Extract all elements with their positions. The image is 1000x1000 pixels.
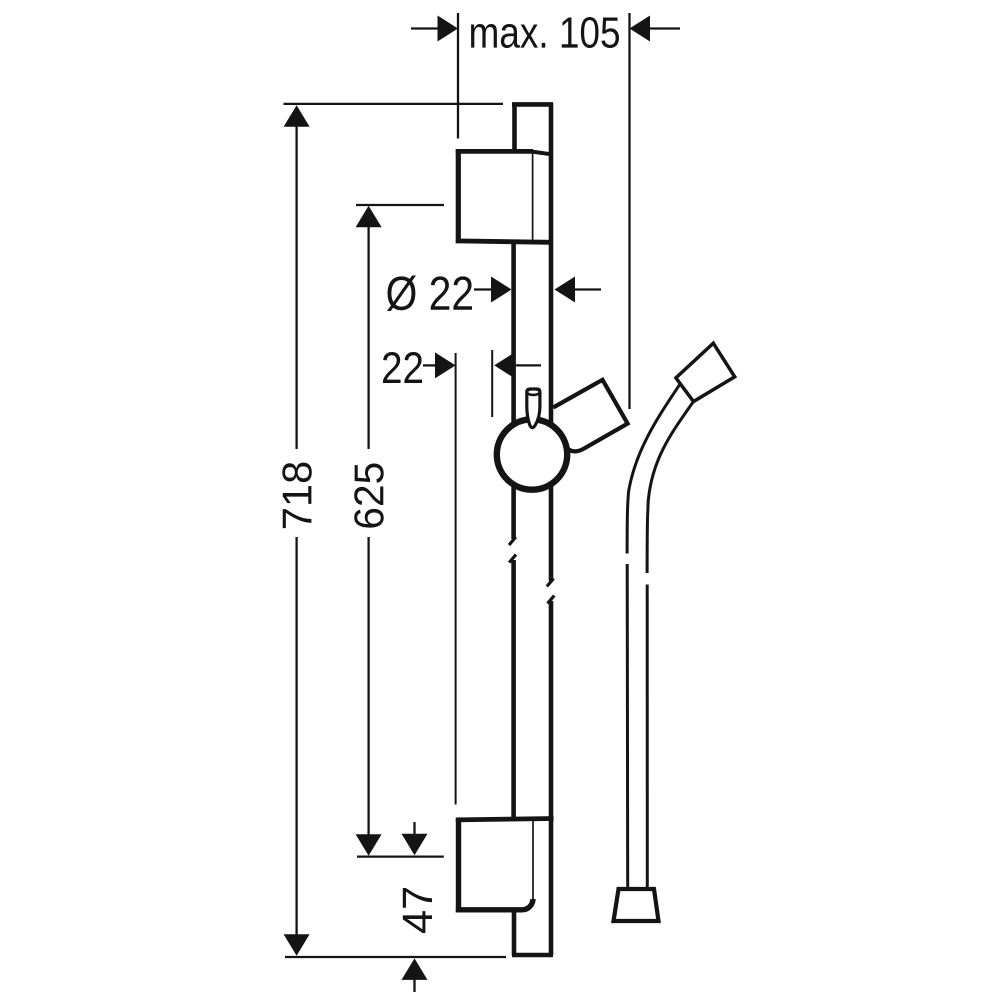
slider pin top cap <box>527 389 540 395</box>
dim 718: top arrow <box>284 105 310 127</box>
dim max105: left extension line <box>457 13 459 139</box>
bar: right edge upper segment (top to break) <box>549 103 554 581</box>
bar: left edge upper segment (top to upper bracket) <box>512 103 517 152</box>
dim 22: left extension line <box>455 353 457 805</box>
dim max105: left stub <box>411 27 438 29</box>
hose: left line lower segment <box>626 564 630 888</box>
lower wall bracket: top edge <box>456 819 554 820</box>
dim 47: top stub <box>413 822 415 836</box>
dim dia22: right stub <box>574 288 601 290</box>
dim 22: left arrow <box>435 352 456 378</box>
bar: top edge <box>512 102 553 107</box>
hose: upper curve inner (right) line <box>647 389 702 573</box>
dim max105: right extension line <box>628 13 630 409</box>
dim 625: bottom extension line <box>357 855 444 857</box>
bar: left edge lower segment (break to bottom bracket) <box>511 560 516 820</box>
lower wall bracket: left edge <box>456 818 461 913</box>
dim 625: top extension line <box>356 204 444 206</box>
label 22 <box>383 352 422 383</box>
dim dia22: left arrow <box>491 277 512 303</box>
dim 22: left stub <box>423 364 438 366</box>
label dia 22 <box>387 276 472 312</box>
bar: right edge break bevel lower <box>548 596 555 604</box>
label max. 105 <box>471 17 619 48</box>
bar: left edge break bevel upper <box>509 537 516 545</box>
bar: bottom edge <box>512 953 553 958</box>
hose bottom connector (trapezoid) <box>614 889 659 921</box>
dim 22: right stub <box>514 364 541 366</box>
slider ball <box>497 419 567 489</box>
label 625 <box>354 464 384 528</box>
label 47 <box>403 888 432 933</box>
dim 718: bottom arrow <box>284 934 310 956</box>
upper wall bracket: body (white fill covers bar left edge) <box>456 151 533 241</box>
lower wall bracket: right thin edge <box>532 821 534 900</box>
upper wall bracket: top edge <box>456 149 533 154</box>
dim 718: top extension line <box>284 103 504 105</box>
hose top connector (angled trapezoid nut) <box>676 343 735 401</box>
dim 625: dimension line upper segment <box>367 226 369 449</box>
dim 718: bottom extension line <box>285 956 506 958</box>
upper wall bracket: top edge crossing bar <box>532 152 552 155</box>
dim 47: bottom stub <box>413 979 415 992</box>
holder arm (angled rectangle, near edge hidden behind ball) <box>553 380 627 452</box>
upper wall bracket: bottom edge <box>456 241 552 242</box>
upper wall bracket: left edge <box>456 149 461 243</box>
dim 22: right arrow <box>494 352 515 378</box>
lower wall bracket: bottom edge with rounded corner <box>456 899 533 910</box>
dim 625: dimension line lower segment <box>367 537 369 835</box>
dim max105: left arrow <box>438 16 459 42</box>
dim 22: right extension line <box>491 350 493 417</box>
dim 47: bottom arrow (points up) <box>402 958 428 980</box>
label 718 <box>282 463 312 528</box>
dim 625: bottom arrow <box>356 834 382 856</box>
dim max105: right stub <box>649 27 680 29</box>
bar: left edge break bevel lower <box>509 555 516 563</box>
bar: left edge middle segment (below upper bracket to break) <box>511 241 516 539</box>
slider pin <box>527 389 540 428</box>
dim max105: right arrow <box>630 16 651 42</box>
dim 625: top arrow <box>356 206 382 228</box>
bar: left edge bottom segment (below bottom bracket) <box>512 910 517 955</box>
dim 718: dimension line upper segment <box>295 125 297 449</box>
dim dia22: right arrow <box>555 277 576 303</box>
hose: upper curve outer (left) line <box>627 375 686 554</box>
bar: right edge break bevel upper <box>547 579 554 587</box>
dim dia22: left stub <box>474 288 493 290</box>
dim 47: top arrow (points down) <box>402 834 428 856</box>
hose: right line lower segment <box>646 585 649 889</box>
lower wall bracket: body <box>456 820 533 910</box>
dim 718: dimension line lower segment <box>295 537 297 936</box>
bar: right edge lower segment (break to bottom) <box>549 601 554 955</box>
upper wall bracket: right thin edge <box>532 153 534 241</box>
